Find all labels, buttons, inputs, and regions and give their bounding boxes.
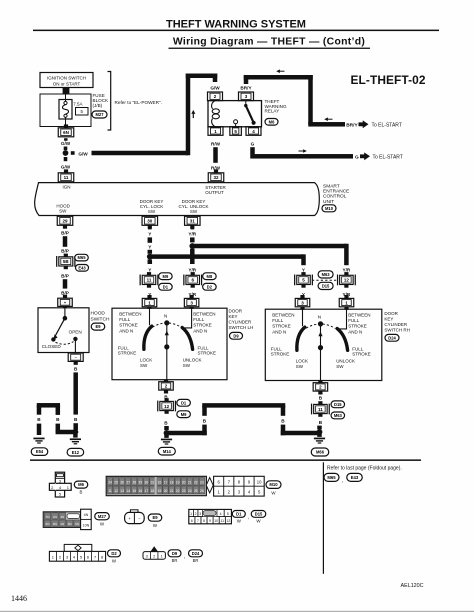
svg-text:STROKE: STROKE <box>271 352 290 357</box>
bottom page edge <box>0 611 474 612</box>
RH N node <box>318 321 323 326</box>
wire Y branch to RH <box>150 254 306 265</box>
wire B RH segment <box>317 426 322 430</box>
RH between-full-stroke label left <box>272 313 294 335</box>
svg-text:SW: SW <box>140 363 148 368</box>
wire label B left <box>37 417 41 422</box>
svg-text:8N: 8N <box>53 522 57 526</box>
wire label B hood 1 <box>74 367 78 372</box>
RH label N <box>318 314 321 319</box>
page number 1446 <box>11 594 27 603</box>
RH left stroke arc <box>297 327 305 350</box>
connector ref M63 <box>318 271 333 278</box>
svg-text:4: 4 <box>220 512 222 516</box>
svg-text:STROKE: STROKE <box>272 324 291 329</box>
svg-text:14: 14 <box>126 489 130 493</box>
svg-text:SW: SW <box>148 209 156 214</box>
svg-text:G/W: G/W <box>61 141 71 146</box>
inline connector 12 RH <box>338 272 356 288</box>
svg-text:ON or START: ON or START <box>53 81 81 86</box>
svg-text:16: 16 <box>158 481 162 485</box>
svg-text:BETWEEN: BETWEEN <box>348 313 370 318</box>
svg-text:12: 12 <box>114 489 118 493</box>
wire label Y/R RH <box>342 267 350 272</box>
connector ref M65 small <box>75 254 89 261</box>
wire label B bridge left <box>203 419 207 424</box>
svg-text:21: 21 <box>170 489 174 493</box>
LH pin 1 connector <box>142 295 157 307</box>
plug LH pin1 to box <box>147 307 151 309</box>
ground ref M14 <box>158 447 175 455</box>
svg-text:KEY: KEY <box>384 316 393 321</box>
hood switch stub <box>64 308 66 316</box>
svg-text:THEFT WARNING SYSTEM: THEFT WARNING SYSTEM <box>166 19 306 31</box>
LH right stroke arc <box>182 328 192 350</box>
svg-text:G/W: G/W <box>78 151 88 156</box>
ground symbol E12 <box>70 438 81 444</box>
hood switch top connector <box>58 295 73 307</box>
svg-text:18: 18 <box>170 481 174 485</box>
wire label B bridge <box>56 417 60 422</box>
svg-text:17: 17 <box>164 481 168 485</box>
LH between-full-stroke label left <box>119 312 141 334</box>
wire G elbow run <box>250 154 353 159</box>
hood switch pivot dot <box>63 316 68 321</box>
svg-text:SMART: SMART <box>323 183 340 189</box>
relay coil <box>212 101 220 127</box>
door key RH label <box>384 311 410 333</box>
svg-text:AEL120C: AEL120C <box>401 583 424 589</box>
svg-text:11: 11 <box>221 519 225 523</box>
svg-text:CONTROL: CONTROL <box>323 194 347 200</box>
label CLOSED <box>42 344 62 349</box>
svg-text:19: 19 <box>176 481 180 485</box>
svg-text:6N: 6N <box>63 130 69 135</box>
plug hood bottom conn to box <box>74 352 78 354</box>
svg-text:3N: 3N <box>60 515 64 519</box>
LH full stroke label left <box>118 345 137 355</box>
svg-text:20: 20 <box>164 489 168 493</box>
LH common lead <box>166 323 168 380</box>
svg-text:N: N <box>318 314 321 319</box>
wire label B/P 3 <box>61 273 69 278</box>
inline connector 11 low <box>312 401 330 417</box>
svg-text:9: 9 <box>209 519 211 523</box>
wire G/W riser <box>186 74 191 156</box>
inline connector 6 mid <box>184 272 202 288</box>
svg-text:To EL-START: To EL-START <box>372 123 402 129</box>
svg-text:G/W: G/W <box>210 85 220 90</box>
door key LH ref D9 <box>230 332 243 339</box>
svg-text:E43: E43 <box>78 265 86 270</box>
svg-text:M63: M63 <box>322 272 331 277</box>
svg-text:2: 2 <box>195 512 197 516</box>
svg-text:Y/R: Y/R <box>188 231 196 236</box>
wire B stub to E12 <box>73 434 78 438</box>
svg-text:D15: D15 <box>255 512 263 517</box>
svg-text:OPEN: OPEN <box>69 329 82 334</box>
RH right stroke arc <box>337 329 347 351</box>
svg-text:AND N: AND N <box>348 330 362 335</box>
svg-text:CYLINDER: CYLINDER <box>229 319 253 324</box>
hood switch arm <box>53 318 65 340</box>
RH pin 1 connector <box>339 295 354 307</box>
connector D9 D24 face <box>143 546 165 559</box>
wire label Y/R RH 2 <box>342 292 350 297</box>
connector D2 face <box>49 544 105 561</box>
RH full stroke label right <box>352 346 371 356</box>
wire label BR/Y above relay pin 3 <box>240 85 252 90</box>
svg-text:D9: D9 <box>233 333 239 338</box>
svg-text:30: 30 <box>147 219 153 224</box>
svg-text:18: 18 <box>151 489 155 493</box>
LH N node <box>164 320 169 325</box>
relay switch arm <box>244 101 256 125</box>
separator rule <box>30 459 421 461</box>
svg-text:2: 2 <box>153 554 155 558</box>
smart entrance control unit box <box>35 183 320 216</box>
wire B bridge to E54 <box>37 403 76 435</box>
svg-text:D2: D2 <box>207 284 213 289</box>
svg-text:E12: E12 <box>72 450 80 455</box>
page title <box>166 19 306 31</box>
wire dash pin31 <box>191 226 195 229</box>
label To EL-START lower <box>373 155 403 161</box>
svg-text:M65: M65 <box>327 475 336 480</box>
foldout divider <box>323 462 324 574</box>
svg-text:26: 26 <box>200 489 204 493</box>
connector ref D15 <box>318 282 333 289</box>
svg-text:7N: 7N <box>46 515 50 519</box>
wire label Y RH 2 <box>302 292 306 297</box>
LH full stroke label right <box>198 345 217 355</box>
dashed link conn5 conn12 <box>312 279 338 281</box>
svg-text:B/P: B/P <box>61 230 69 235</box>
svg-text:12: 12 <box>344 278 350 283</box>
svg-text:3: 3 <box>199 512 201 516</box>
connector ref M8 mid <box>203 273 217 280</box>
label DOOR KEY CYL UNLOCK SW <box>178 199 208 214</box>
wire Y/R segment 2 <box>190 249 195 264</box>
svg-text:31: 31 <box>151 481 155 485</box>
wire label R/W below relay pin 1 <box>211 142 221 147</box>
svg-text:G: G <box>251 142 255 147</box>
svg-text:E43: E43 <box>351 475 359 480</box>
svg-text:BR: BR <box>172 558 178 563</box>
LH pin 3 connector <box>184 295 199 307</box>
control unit ref M10 <box>322 205 336 212</box>
svg-text:AND N: AND N <box>272 330 286 335</box>
wire label G/W above relay pin 2 <box>210 85 220 90</box>
svg-text:M27: M27 <box>96 112 105 117</box>
ground symbol E54 <box>33 438 44 444</box>
svg-text:G/W: G/W <box>61 164 71 169</box>
svg-text:STROKE: STROKE <box>193 323 212 328</box>
svg-text:BR/Y: BR/Y <box>240 85 252 90</box>
D9 face ref <box>168 550 181 563</box>
refer to EL-POWER note <box>115 100 162 105</box>
svg-text:23: 23 <box>182 489 186 493</box>
RH pin 2 connector <box>313 383 328 395</box>
wire label B/P 4 <box>61 291 69 296</box>
relay pin 3 connector <box>239 92 254 101</box>
svg-text:4N: 4N <box>84 513 89 517</box>
svg-text:SW: SW <box>336 364 344 369</box>
E9 face ref <box>148 514 162 528</box>
svg-text:5N: 5N <box>46 522 50 526</box>
RH between-full-stroke label right <box>348 313 370 335</box>
control unit label <box>323 183 349 205</box>
svg-text:10N: 10N <box>83 523 90 527</box>
svg-text:20: 20 <box>182 481 186 485</box>
svg-text:E9: E9 <box>152 515 158 520</box>
connector ref D2 mid <box>203 283 217 290</box>
LH pin 2 connector <box>159 382 174 394</box>
wire label Y/R 3 <box>188 292 196 297</box>
relay pin 2 connector <box>208 92 223 101</box>
svg-text:Wiring Diagram — THEFT — (Cont: Wiring Diagram — THEFT — (Cont’d) <box>173 37 365 48</box>
RH common lead <box>320 324 322 381</box>
D2 face ref <box>108 550 121 564</box>
svg-text:1446: 1446 <box>11 594 27 603</box>
label IGN <box>62 184 70 189</box>
left arrow above BR/Y end <box>324 117 332 121</box>
svg-text:BR: BR <box>193 558 199 563</box>
plug LH pin2 to box <box>164 379 168 382</box>
svg-text:17: 17 <box>145 489 149 493</box>
svg-text:D1: D1 <box>236 512 242 517</box>
wire label B LH <box>164 394 168 399</box>
svg-text:24: 24 <box>108 481 112 485</box>
fuse rating 7.5A <box>73 101 82 106</box>
svg-text:DOOR: DOOR <box>384 311 398 316</box>
svg-text:M8: M8 <box>207 274 213 279</box>
LH neutral dashed arc <box>153 323 182 327</box>
svg-text:,: , <box>184 554 185 560</box>
hood switch closed contact <box>51 337 55 341</box>
label HOOD SW <box>56 204 70 214</box>
connector 6N <box>58 124 74 136</box>
LH left stroke arc <box>144 326 152 349</box>
door key cylinder switch RH box <box>265 309 382 380</box>
plug hood top conn to box <box>63 306 67 308</box>
svg-text:HOOD: HOOD <box>91 311 106 317</box>
RH pin 3 connector <box>295 295 310 307</box>
svg-text:SWITCH: SWITCH <box>91 316 110 322</box>
svg-text:M9: M9 <box>181 412 187 417</box>
wire BR/Y top run <box>244 75 313 80</box>
control unit pin 30 <box>142 216 158 228</box>
junction node hood ground <box>73 429 79 435</box>
theft warning relay box <box>208 101 262 127</box>
plug RH pin2 to box <box>318 380 322 383</box>
ground ref M66 <box>311 448 329 456</box>
foldout comma <box>342 478 343 484</box>
control unit pin 29 <box>57 216 73 228</box>
svg-text:13: 13 <box>120 489 124 493</box>
svg-text:D1: D1 <box>181 400 187 405</box>
svg-text:M10: M10 <box>325 206 334 211</box>
svg-text:6: 6 <box>191 519 193 523</box>
inline connector 5B <box>57 254 75 270</box>
inline connector 12 low <box>158 398 176 414</box>
svg-text:B: B <box>74 367 78 372</box>
svg-text:11: 11 <box>318 407 323 412</box>
hood switch open lead <box>74 341 76 353</box>
svg-text:2N: 2N <box>53 515 57 519</box>
svg-text:M63: M63 <box>334 413 343 418</box>
relay M6 face ref <box>74 481 88 495</box>
plug RH pin1 to box <box>344 307 348 310</box>
connector ref D1 mid <box>159 283 173 290</box>
page subtitle <box>173 37 365 48</box>
hood switch label <box>91 311 110 323</box>
junction node G/W <box>63 150 69 156</box>
svg-text:M9: M9 <box>163 274 169 279</box>
svg-text:BR/Y: BR/Y <box>346 123 358 129</box>
svg-text:(J/B): (J/B) <box>93 103 103 108</box>
svg-text:B: B <box>319 395 323 400</box>
svg-text:RELAY: RELAY <box>265 108 280 113</box>
svg-text:8: 8 <box>203 519 205 523</box>
RH pin3 lead <box>302 307 304 326</box>
wire tick <box>71 151 75 155</box>
svg-text:BETWEEN: BETWEEN <box>193 312 215 317</box>
svg-text:12: 12 <box>164 404 170 409</box>
svg-text:+: + <box>128 516 131 521</box>
wire label G/W below 6N <box>61 141 71 146</box>
wire label B LH 2 <box>164 420 168 425</box>
wire label G at EL-START <box>355 155 359 161</box>
RH up arrow on common lead <box>318 332 322 337</box>
wire Y segment 1 <box>148 237 153 242</box>
svg-text:STROKE: STROKE <box>118 351 137 356</box>
svg-text:FULL: FULL <box>193 317 205 322</box>
wire label Y 3 <box>148 267 152 272</box>
relay pin 5 contact <box>234 120 238 127</box>
door key cylinder switch LH box <box>112 308 227 380</box>
wire B LH segment <box>164 426 169 430</box>
svg-text:FULL: FULL <box>198 345 210 350</box>
label DOOR KEY CYL LOCK SW <box>140 199 164 214</box>
svg-text:24: 24 <box>188 489 192 493</box>
wire dash pin30 <box>148 226 152 229</box>
LH mid node <box>164 344 169 349</box>
svg-text:N: N <box>164 313 167 318</box>
plug ignition to fuse <box>63 88 70 95</box>
wire BR/Y elbow run <box>308 122 345 127</box>
LH pin3 lead <box>185 307 192 328</box>
arrow to EL-START upper <box>359 120 369 128</box>
right arrow above G run <box>299 149 307 153</box>
svg-text:5B: 5B <box>63 259 70 264</box>
svg-text:12: 12 <box>226 519 230 523</box>
svg-text:29: 29 <box>62 219 68 224</box>
ground symbol M14 <box>161 435 172 445</box>
svg-text:M66: M66 <box>316 450 325 455</box>
wire label R/W above pin 32 <box>211 165 221 170</box>
wire B/P segment 2 <box>63 279 68 288</box>
svg-text:27: 27 <box>126 481 130 485</box>
wire label G/W at bus <box>78 151 88 156</box>
wire label Y/R 2 <box>188 267 196 272</box>
RH pin1 lead <box>340 307 347 329</box>
svg-text:IGN: IGN <box>62 184 70 189</box>
svg-text:B/P: B/P <box>61 273 69 278</box>
wire B bridge LH-RH <box>167 403 320 435</box>
svg-text:25: 25 <box>194 489 198 493</box>
inline connector 5 RH <box>295 272 313 288</box>
arrow to EL-START lower <box>360 152 370 160</box>
svg-text:30: 30 <box>145 481 149 485</box>
svg-text:BETWEEN: BETWEEN <box>272 313 294 318</box>
wire G/W top run <box>186 74 218 79</box>
relay pin 4 connector <box>246 127 261 136</box>
svg-text:G: G <box>355 155 359 161</box>
wire R/W segment <box>213 147 218 163</box>
subtitle underline <box>169 48 371 49</box>
fuse 7.5A symbol <box>59 94 72 127</box>
label OPEN <box>69 329 82 334</box>
D1 face ref <box>232 511 245 524</box>
junction node RH ground <box>317 429 323 435</box>
wire dash above 6N label <box>64 138 67 141</box>
hood switch bottom connector <box>68 353 83 365</box>
relay M6 connector face <box>49 472 71 497</box>
RH lock sw label <box>296 359 308 369</box>
svg-text:E9: E9 <box>95 324 101 329</box>
svg-text:28: 28 <box>132 481 136 485</box>
svg-text:10: 10 <box>257 480 262 485</box>
wire BR/Y riser <box>244 75 249 84</box>
svg-text:29: 29 <box>138 481 142 485</box>
wire label G below relay pin 4 <box>251 142 255 147</box>
control unit pin 31 <box>185 216 201 228</box>
svg-text:Y/R: Y/R <box>188 267 196 272</box>
svg-text:,: , <box>248 515 249 521</box>
svg-text:M10: M10 <box>269 482 278 487</box>
hood switch open contact <box>73 337 77 341</box>
wire B hood segment 2 <box>73 423 78 430</box>
connector ref M9 low <box>177 411 191 418</box>
svg-text:6N: 6N <box>75 522 79 526</box>
relay pin 5 connector <box>230 127 242 136</box>
wire G/W bus horizontal <box>92 151 189 156</box>
ignition switch power box <box>40 73 93 88</box>
fuse block M27 connector face <box>43 509 91 529</box>
fuse block box <box>40 94 91 127</box>
svg-text:STROKE: STROKE <box>352 352 371 357</box>
svg-text:3: 3 <box>146 554 148 558</box>
svg-text:10: 10 <box>214 519 218 523</box>
svg-text:ENTRANCE: ENTRANCE <box>323 189 349 195</box>
svg-text:1: 1 <box>190 512 192 516</box>
LH pin1 lead <box>149 307 151 325</box>
wire label B RH <box>319 395 323 400</box>
svg-text:M14: M14 <box>163 449 172 454</box>
svg-text:B: B <box>80 490 83 495</box>
svg-text:M27: M27 <box>98 514 107 519</box>
wire label B hood 2 <box>74 417 78 422</box>
svg-text:D9: D9 <box>172 551 178 556</box>
plug LH pin3 to box <box>190 307 194 309</box>
ground symbol M66 <box>314 434 325 444</box>
svg-text:16: 16 <box>138 489 142 493</box>
svg-text:D15: D15 <box>322 284 330 289</box>
svg-text:STROKE: STROKE <box>348 324 367 329</box>
junction node Y <box>147 254 153 260</box>
svg-text:1: 1 <box>161 554 163 558</box>
